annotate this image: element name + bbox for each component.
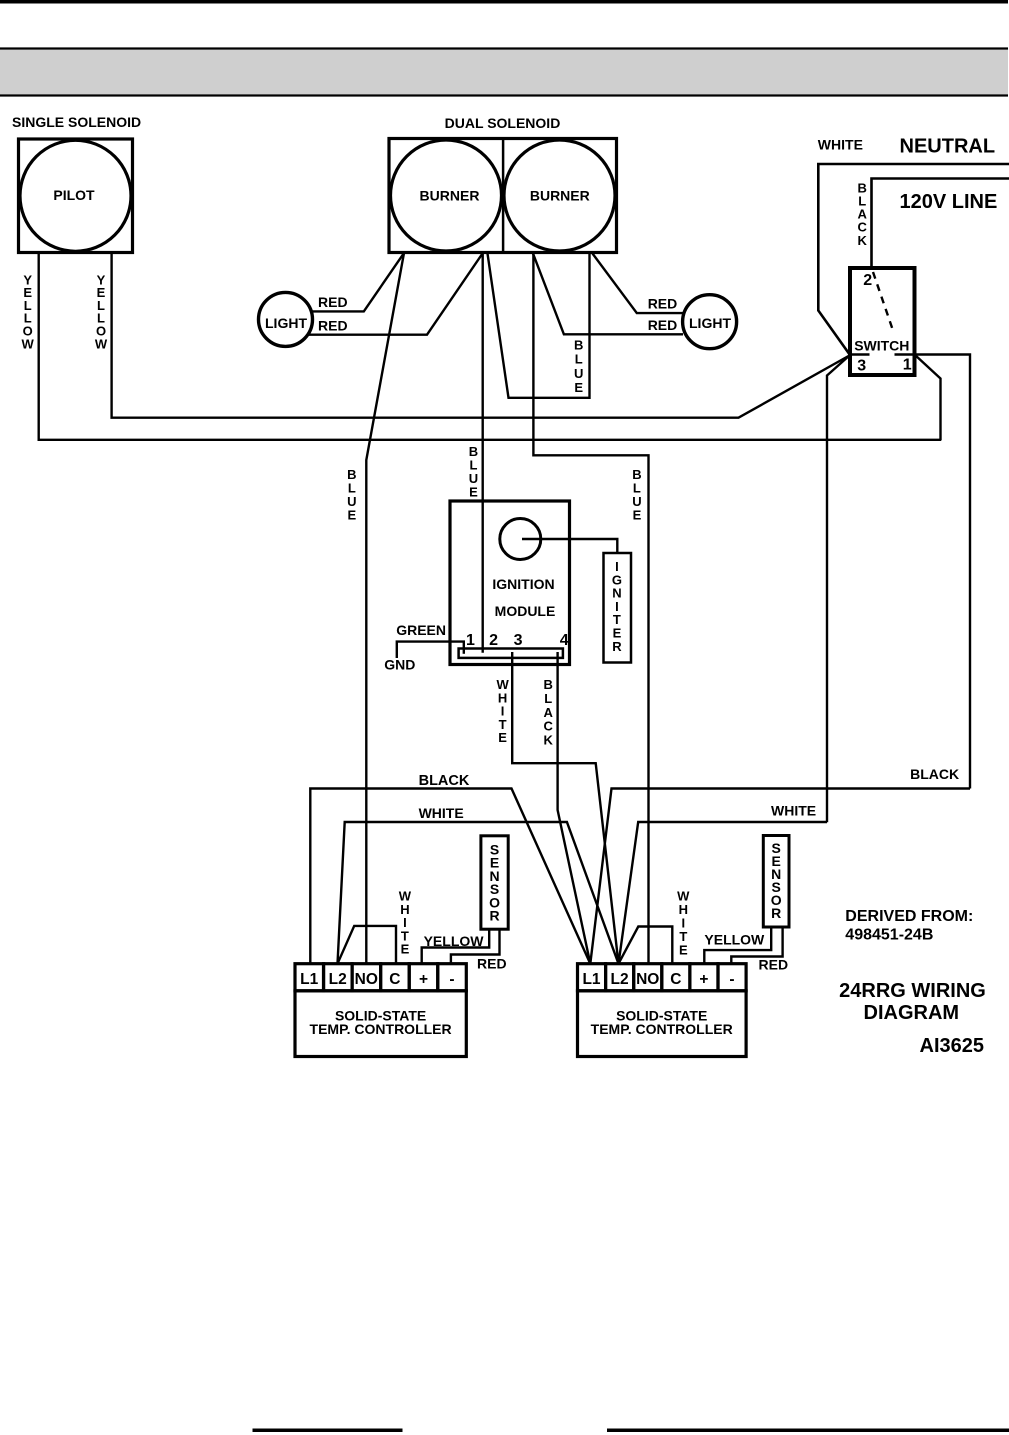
svg-text:TEMP. CONTROLLER: TEMP. CONTROLLER — [310, 1021, 452, 1037]
svg-text:498451-24B: 498451-24B — [845, 927, 933, 944]
wire yellow pilot left vertical — [39, 253, 942, 440]
svg-text:2: 2 — [863, 272, 872, 289]
svg-text:WHITE: WHITE — [818, 137, 863, 153]
svg-text:+: + — [699, 971, 708, 988]
wire red right-light lower — [533, 254, 683, 335]
wire black switch1 to L1 bus — [915, 355, 971, 789]
wire black bus left segment — [310, 789, 590, 964]
svg-text:NEUTRAL: NEUTRAL — [900, 136, 996, 158]
svg-text:BLUE: BLUE — [347, 467, 356, 523]
wire white module pin3 to right L2 — [512, 652, 618, 964]
right controller L2-C jumper — [619, 927, 673, 966]
svg-text:BLUE: BLUE — [469, 444, 478, 500]
svg-text:120V LINE: 120V LINE — [900, 191, 998, 213]
svg-text:MODULE: MODULE — [495, 603, 556, 619]
svg-text:4: 4 — [560, 632, 569, 649]
wire red left sensor to minus — [451, 929, 500, 965]
wire red left-light upper — [311, 253, 404, 311]
svg-text:YELLOW: YELLOW — [424, 933, 485, 949]
right controller terminal labels — [582, 971, 734, 988]
svg-text:YELLOW: YELLOW — [704, 932, 765, 948]
svg-text:BLUE: BLUE — [574, 337, 583, 395]
wire white bus left segment — [338, 822, 619, 964]
wire blue module pin2 vertical — [482, 253, 484, 653]
svg-text:RED: RED — [648, 317, 678, 333]
module terminal strip — [459, 649, 563, 658]
dual solenoid BURNER box — [389, 139, 617, 253]
switch terminal 1 stub — [895, 353, 915, 355]
wire yellow switch1 drop — [915, 355, 941, 441]
svg-text:TEMP. CONTROLLER: TEMP. CONTROLLER — [591, 1021, 733, 1037]
svg-text:BLUE: BLUE — [632, 467, 641, 523]
svg-text:RED: RED — [477, 956, 507, 972]
svg-text:WHITE: WHITE — [419, 805, 464, 821]
gray header band — [0, 47, 1008, 96]
svg-text:BLACK: BLACK — [910, 766, 959, 782]
svg-text:LIGHT: LIGHT — [265, 315, 307, 331]
module pin 1 stub — [463, 649, 465, 654]
right temp controller terminals — [578, 964, 747, 991]
svg-text:DUAL SOLENOID: DUAL SOLENOID — [445, 115, 561, 131]
svg-text:RED: RED — [759, 957, 789, 973]
svg-text:SENSOR: SENSOR — [771, 840, 782, 921]
svg-text:24RRG WIRING: 24RRG WIRING — [839, 980, 986, 1002]
svg-text:BLACK: BLACK — [419, 773, 470, 789]
svg-text:GREEN: GREEN — [396, 622, 446, 638]
indicator light left — [259, 292, 313, 346]
switch box — [850, 268, 915, 375]
svg-text:RED: RED — [318, 294, 348, 310]
svg-text:IGNITION: IGNITION — [492, 576, 554, 592]
wire red right-light upper — [593, 254, 684, 314]
burner box divider — [502, 139, 505, 253]
svg-text:DERIVED FROM:: DERIVED FROM: — [845, 908, 973, 925]
left controller L2-C jumper — [338, 926, 397, 965]
wire blue burner interconnect elbow — [488, 254, 590, 398]
bottom rule right — [607, 1429, 1009, 1433]
wire 120v line horizontal — [872, 179, 1009, 269]
svg-text:BLACK: BLACK — [544, 677, 554, 747]
wire yellow left sensor to plus — [422, 929, 490, 965]
burner right circle — [504, 140, 615, 251]
svg-text:BURNER: BURNER — [530, 188, 590, 204]
ignition module circle — [500, 519, 541, 560]
solenoid valve PILOT circle — [20, 140, 131, 251]
wire blue left burner to left controller NO — [366, 253, 404, 965]
svg-text:GND: GND — [384, 657, 415, 673]
svg-text:NO: NO — [355, 971, 378, 988]
svg-text:3: 3 — [514, 632, 523, 649]
svg-text:C: C — [389, 971, 400, 988]
svg-text:1: 1 — [903, 357, 912, 374]
right sensor box — [763, 836, 789, 928]
svg-text:-: - — [449, 971, 454, 988]
svg-text:1: 1 — [466, 632, 475, 649]
left controller terminal labels — [300, 971, 454, 988]
bottom rule left — [253, 1429, 403, 1433]
svg-text:AI3625: AI3625 — [920, 1035, 985, 1057]
svg-text:BLACK: BLACK — [858, 180, 868, 247]
svg-text:C: C — [670, 971, 681, 988]
svg-text:L2: L2 — [329, 971, 347, 988]
svg-text:LIGHT: LIGHT — [689, 315, 731, 331]
svg-text:L2: L2 — [611, 971, 629, 988]
wire blue right burner to right controller NO — [533, 254, 648, 965]
wire yellow pilot right vertical — [112, 253, 851, 418]
burner left circle — [391, 140, 502, 251]
svg-text:-: - — [729, 971, 734, 988]
svg-text:RED: RED — [318, 318, 348, 334]
svg-text:WHITE: WHITE — [771, 802, 816, 818]
wire black bus right segment — [590, 789, 970, 964]
wire white switch3 drop — [827, 355, 850, 822]
wire green gnd to pin1 — [397, 642, 464, 658]
svg-text:DIAGRAM: DIAGRAM — [864, 1002, 960, 1024]
svg-text:PILOT: PILOT — [53, 187, 95, 203]
switch terminal 3 stub — [850, 353, 870, 355]
wire red right sensor to minus — [731, 926, 782, 965]
wire module circle to igniter — [522, 539, 617, 553]
svg-text:NO: NO — [636, 971, 659, 988]
svg-text:RED: RED — [648, 296, 678, 312]
left temp controller terminals — [295, 964, 466, 991]
switch contact dashed line — [873, 272, 893, 331]
wire neutral horizontal — [818, 164, 1009, 355]
wire white bus right segment — [619, 822, 828, 964]
ignition module box — [450, 501, 570, 665]
wire red left-light lower — [308, 254, 483, 335]
svg-text:+: + — [419, 971, 428, 988]
svg-text:L1: L1 — [582, 971, 600, 988]
svg-text:SINGLE SOLENOID: SINGLE SOLENOID — [12, 114, 141, 130]
svg-text:SWITCH: SWITCH — [854, 338, 909, 354]
svg-text:2: 2 — [489, 632, 498, 649]
solenoid valve PILOT box — [19, 139, 133, 253]
wire black module pin4 to right L1 — [558, 652, 591, 964]
svg-text:L1: L1 — [300, 971, 318, 988]
right temp controller body — [578, 991, 747, 1057]
igniter box — [604, 553, 632, 663]
top border rule — [0, 0, 1008, 4]
svg-text:3: 3 — [857, 358, 866, 375]
indicator light right — [683, 295, 737, 349]
left temp controller body — [295, 991, 466, 1057]
left sensor box — [481, 836, 508, 929]
wire yellow right sensor to plus — [704, 926, 771, 965]
svg-text:BURNER: BURNER — [420, 188, 480, 204]
svg-text:SENSOR: SENSOR — [489, 842, 500, 924]
